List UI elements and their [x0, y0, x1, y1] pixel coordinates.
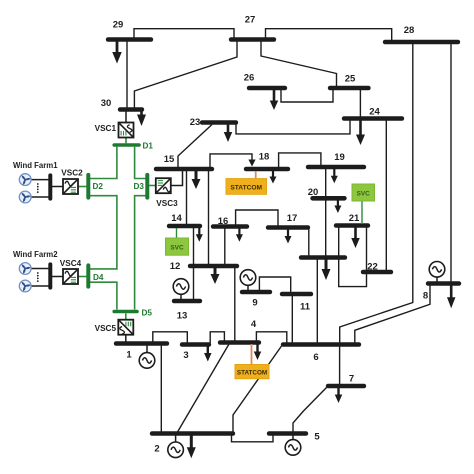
- svg-text:D4: D4: [93, 273, 104, 282]
- dots windfarm1: [37, 183, 39, 185]
- wire 17-10: [308, 229, 310, 256]
- load arrow bus 4: [256, 344, 258, 353]
- DC bus D4: [86, 265, 90, 286]
- bus 8: [428, 281, 459, 286]
- DC bus D3: [145, 175, 149, 198]
- wire 29-30: [126, 41, 128, 108]
- svg-text:3: 3: [183, 350, 188, 361]
- wind farm 1 collector bar: [48, 175, 52, 198]
- svg-text:19: 19: [334, 152, 345, 163]
- SVC at bus 21: [352, 184, 375, 201]
- load arrow bus 3: [207, 346, 209, 355]
- op-amp VSC5 converter: [118, 320, 133, 335]
- svg-text:14: 14: [171, 213, 182, 224]
- DC bus D1: [114, 143, 139, 147]
- bus 17: [268, 225, 308, 230]
- load arrow bus 16: [238, 229, 240, 236]
- svg-text:11: 11: [300, 302, 311, 313]
- bus 13: [174, 299, 200, 304]
- bus 16: [213, 224, 247, 229]
- wire bus21 to SVC2: [361, 201, 363, 224]
- svg-text:7: 7: [349, 374, 354, 385]
- load arrow bus 18: [272, 171, 274, 178]
- svg-text:26: 26: [244, 73, 255, 84]
- bus 9: [242, 290, 270, 295]
- svg-text:Wind Farm1: Wind Farm1: [13, 161, 58, 170]
- wire VSC4 to D4: [78, 276, 87, 278]
- svg-text:4: 4: [251, 319, 257, 330]
- svg-text:16: 16: [218, 216, 229, 227]
- bus 7: [328, 384, 364, 389]
- generator G9: [240, 270, 256, 290]
- svg-text:SVC: SVC: [357, 190, 371, 197]
- SVC at bus 14: [166, 238, 189, 255]
- svg-text:15: 15: [164, 154, 175, 165]
- wire 23-24: [236, 121, 350, 134]
- wind turbine 1a: [19, 174, 31, 186]
- load arrow bus 23: [227, 125, 230, 134]
- generator G5: [285, 436, 301, 456]
- wire DC D1 to D2: [90, 147, 117, 179]
- load arrow bus 19: [333, 169, 335, 177]
- svg-text:13: 13: [177, 311, 188, 322]
- svg-text:30: 30: [101, 98, 112, 109]
- svg-text:STATCOM: STATCOM: [230, 185, 262, 192]
- wire 14-12-13: [193, 228, 195, 300]
- generator G1: [139, 346, 155, 369]
- load arrow bus 30: [140, 112, 143, 117]
- bus 24: [344, 116, 402, 121]
- bus 18: [246, 167, 288, 172]
- wire bus4 to STATCOM2: [251, 344, 253, 365]
- bus 11: [282, 292, 311, 297]
- load arrow bus 15: [195, 171, 198, 181]
- op-amp VSC3 converter: [156, 178, 171, 193]
- svg-text:12: 12: [170, 261, 181, 272]
- bus 2: [152, 431, 233, 436]
- bus 27: [231, 37, 274, 42]
- svg-text:28: 28: [404, 25, 415, 36]
- load arrow bus 26: [273, 90, 276, 102]
- wire DC D1 to D3: [135, 147, 146, 179]
- DC bus D2: [86, 175, 90, 198]
- wire 4-6: [256, 332, 286, 343]
- svg-text:17: 17: [287, 213, 298, 224]
- wire turbine2b to bar: [31, 285, 49, 287]
- load arrow bus 17: [287, 230, 289, 238]
- bus 15: [156, 167, 212, 172]
- wire 19-20-10: [325, 169, 327, 257]
- wire turbine1a to bar: [31, 179, 49, 181]
- wire 11-6: [291, 296, 293, 344]
- wire WF2 to VSC4: [51, 276, 63, 278]
- wire 3-4: [210, 332, 224, 343]
- bus 22: [363, 270, 391, 275]
- wire 6-28: [340, 44, 413, 344]
- wire DC D4 to D5: [90, 282, 117, 309]
- bus 30: [120, 107, 142, 112]
- wire 18-19: [279, 153, 321, 168]
- svg-text:27: 27: [245, 15, 256, 26]
- load arrow bus 7: [337, 388, 339, 396]
- svg-text:23: 23: [190, 117, 201, 128]
- svg-text:VSC5: VSC5: [95, 324, 117, 333]
- wire 29-27: [134, 29, 234, 40]
- bus 23: [202, 120, 236, 125]
- wire 27-30: [134, 41, 237, 108]
- svg-text:D5: D5: [142, 309, 153, 318]
- svg-text:1: 1: [126, 350, 132, 361]
- wire 2-5: [232, 435, 274, 442]
- svg-text:6: 6: [313, 352, 318, 363]
- wind farm 2 collector bar: [48, 264, 52, 287]
- load arrow bus 14: [198, 228, 200, 236]
- bus 12: [190, 264, 237, 269]
- bus 6: [283, 342, 359, 347]
- wire WF1 to VSC2: [51, 186, 63, 188]
- svg-text:STATCOM: STATCOM: [237, 370, 267, 377]
- wire 24-22: [385, 121, 387, 271]
- wire DC D2 to D4: [90, 196, 117, 269]
- bus 25: [330, 86, 368, 91]
- load arrow bus 24: [359, 121, 362, 137]
- svg-text:SVC: SVC: [170, 245, 184, 252]
- svg-text:VSC2: VSC2: [61, 169, 83, 178]
- wire VSC3 to bus15: [171, 171, 183, 186]
- wire 27-28: [266, 29, 392, 41]
- wire turbine1b to bar: [31, 196, 49, 198]
- STATCOM at bus 18: [226, 179, 267, 195]
- generator G2: [168, 436, 184, 458]
- bus 14: [169, 224, 200, 229]
- svg-text:5: 5: [314, 432, 320, 443]
- wire D3 to VSC3: [149, 185, 156, 187]
- wire DC D3 to D5: [135, 196, 146, 310]
- dots windfarm2: [37, 272, 39, 274]
- wire 6-8: [355, 285, 430, 343]
- wire 1-3: [153, 332, 188, 343]
- load arrow bus 8: [450, 286, 453, 299]
- svg-text:18: 18: [259, 152, 270, 163]
- wire 23-15: [178, 125, 212, 168]
- wire 9-11: [259, 277, 290, 293]
- wire VSC1 to D1: [125, 138, 127, 145]
- load arrow bus 10: [325, 260, 328, 271]
- svg-text:D1: D1: [143, 142, 154, 151]
- wire 26-25: [281, 90, 333, 102]
- bus 26: [249, 86, 285, 91]
- load arrow bus 12: [214, 268, 217, 276]
- svg-text:VSC4: VSC4: [60, 259, 82, 268]
- wire 25-24: [359, 90, 361, 117]
- svg-text:VSC3: VSC3: [156, 199, 178, 208]
- bus 10: [301, 255, 345, 260]
- svg-text:24: 24: [369, 107, 380, 118]
- wire bus14 to SVC1: [176, 228, 178, 238]
- wire 6-7: [339, 346, 341, 385]
- wire 2-6: [233, 346, 282, 432]
- arrowhead line 15-18 into bus 18: [248, 160, 255, 167]
- wire 1-2: [160, 345, 162, 432]
- bus 1: [116, 341, 167, 346]
- bus 4: [220, 340, 259, 345]
- svg-text:8: 8: [423, 291, 428, 302]
- svg-text:20: 20: [308, 187, 319, 198]
- svg-text:VSC1: VSC1: [95, 124, 117, 133]
- bus 19: [308, 165, 364, 170]
- wire 15-12: [208, 171, 210, 265]
- wire bus30 to VSC1: [125, 112, 127, 123]
- wire VSC2 to D2: [78, 186, 87, 188]
- svg-text:25: 25: [345, 74, 356, 85]
- wire 5-7: [293, 388, 327, 433]
- op-amp VSC2 converter: [63, 179, 78, 194]
- wire D5 to VSC5: [125, 314, 127, 320]
- generator G8: [429, 262, 445, 282]
- svg-text:22: 22: [367, 262, 378, 273]
- svg-text:29: 29: [113, 20, 124, 31]
- wire 10-6: [316, 259, 318, 343]
- DC bus D5: [114, 310, 137, 314]
- wind turbine 2b: [19, 280, 31, 292]
- wire 12-4: [234, 268, 236, 342]
- load arrow bus 21: [354, 228, 357, 240]
- load arrow bus 2: [190, 436, 193, 449]
- svg-text:D3: D3: [134, 182, 145, 191]
- op-amp VSC1 converter: [119, 123, 134, 138]
- wire VSC5 to bus1: [125, 335, 127, 342]
- wire bus18 to STATCOM: [255, 171, 257, 179]
- generator G13: [173, 279, 189, 299]
- svg-text:D2: D2: [93, 182, 104, 191]
- load arrow bus 29: [116, 42, 119, 54]
- STATCOM at bus 4: [235, 365, 269, 379]
- wind turbine 1b: [19, 191, 31, 203]
- wire 21-10-22: [339, 227, 367, 287]
- wire 2-4: [178, 344, 230, 432]
- bus 20: [313, 196, 345, 201]
- op-amp VSC4 converter: [63, 269, 78, 284]
- bus 3: [182, 342, 209, 347]
- wire 27-25: [261, 41, 337, 87]
- load arrow bus 20: [337, 201, 339, 208]
- svg-text:2: 2: [154, 444, 159, 455]
- bus 28: [385, 40, 458, 45]
- wire turbine2a to bar: [31, 268, 49, 270]
- wire 15-18: [210, 154, 252, 168]
- bus 21: [336, 223, 368, 228]
- wire 16-12: [224, 228, 226, 265]
- svg-text:9: 9: [252, 298, 257, 309]
- svg-text:Wind Farm2: Wind Farm2: [13, 250, 58, 259]
- wire 15-14: [186, 171, 188, 225]
- wire 16-17: [236, 210, 278, 226]
- svg-text:21: 21: [349, 213, 360, 224]
- wire 8-28: [450, 44, 452, 283]
- bus 5: [269, 431, 306, 436]
- wind turbine 2a: [19, 263, 31, 275]
- bus 29: [108, 37, 151, 42]
